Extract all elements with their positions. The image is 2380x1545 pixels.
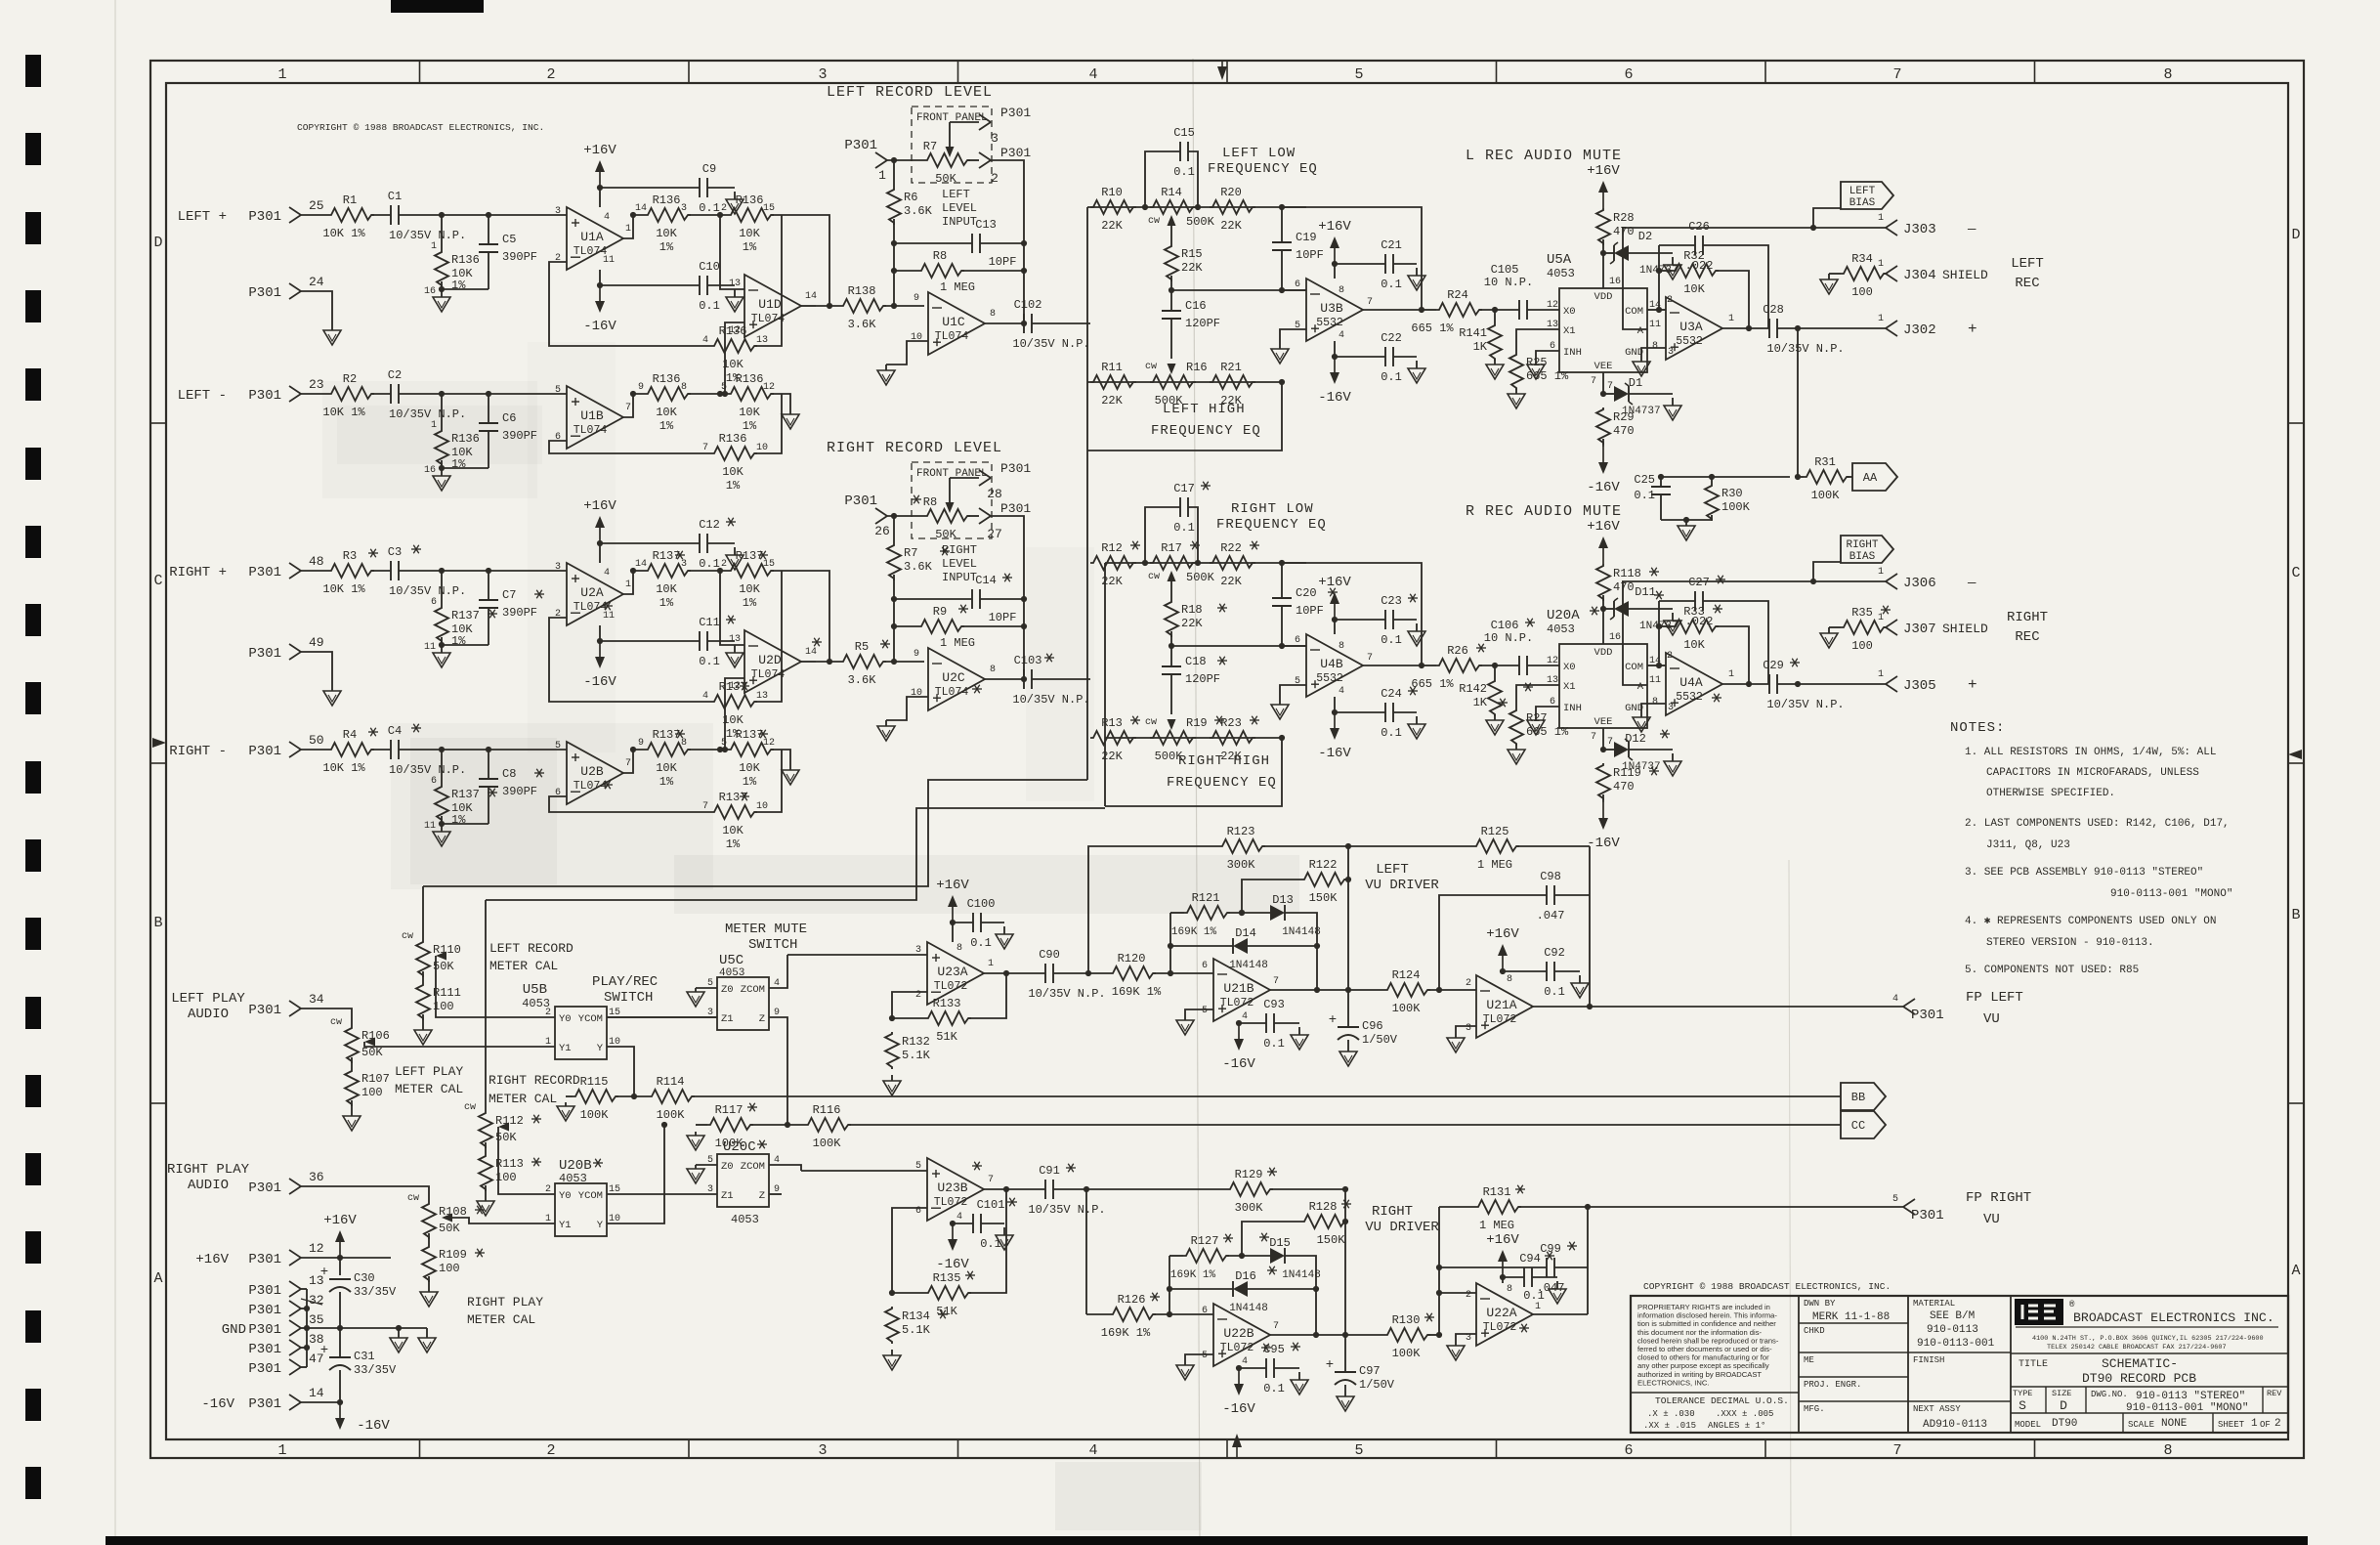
svg-text:R26: R26 — [1447, 644, 1468, 658]
svg-text:U2D: U2D — [758, 653, 782, 667]
svg-text:D2: D2 — [1638, 230, 1652, 243]
svg-text:VU DRIVER: VU DRIVER — [1365, 878, 1439, 893]
wire EQ mid node — [1170, 276, 1172, 290]
potentiometer R16 500K — [1150, 375, 1196, 389]
svg-text:4053: 4053 — [731, 1213, 759, 1226]
capacitor C96 1/50V — [1338, 1026, 1359, 1028]
wire A control to bias rail — [1623, 581, 1647, 685]
svg-text:R24: R24 — [1447, 288, 1468, 302]
wire Y0 to R112 wiper — [498, 1127, 555, 1194]
svg-text:0.1: 0.1 — [1634, 489, 1655, 502]
wire COM to output amp — [1647, 665, 1659, 666]
svg-text:COM: COM — [1625, 306, 1643, 318]
ground — [1556, 1281, 1558, 1289]
wire VEE down — [1602, 372, 1604, 394]
op-amp U2C — [928, 648, 985, 710]
svg-text:14: 14 — [635, 203, 647, 214]
svg-text:C1: C1 — [388, 190, 402, 203]
svg-text:12: 12 — [309, 1241, 324, 1256]
svg-text:R35: R35 — [1851, 606, 1873, 620]
svg-text:1: 1 — [2251, 1418, 2258, 1430]
svg-text:R121: R121 — [1192, 891, 1220, 905]
svg-text:Z1: Z1 — [721, 1013, 734, 1025]
svg-text:SHIELD: SHIELD — [1942, 268, 1988, 282]
svg-text:7: 7 — [1367, 297, 1373, 308]
wire output — [1722, 683, 1769, 685]
resistor R133 51K — [892, 1017, 925, 1019]
svg-text:+16V: +16V — [195, 1252, 229, 1267]
svg-text:10PF: 10PF — [989, 611, 1017, 624]
svg-text:A: A — [1637, 681, 1644, 693]
connector P301 pin 36 — [289, 1179, 301, 1186]
svg-text:C20: C20 — [1296, 586, 1317, 600]
svg-text:D11: D11 — [1635, 585, 1656, 599]
ground — [1279, 701, 1281, 705]
wire — [1777, 683, 1886, 685]
wire — [1479, 309, 1519, 311]
ground — [1672, 613, 1674, 621]
power +16V mute — [1602, 546, 1604, 564]
svg-text:AD910-0113: AD910-0113 — [1923, 1419, 1987, 1431]
svg-text:R33: R33 — [1683, 605, 1705, 619]
svg-text:22K: 22K — [1101, 750, 1123, 763]
svg-text:1K: 1K — [1473, 696, 1488, 709]
svg-text:4: 4 — [604, 568, 610, 579]
svg-text:14: 14 — [635, 559, 647, 570]
wire — [371, 393, 391, 395]
svg-text:TL072: TL072 — [934, 980, 968, 993]
power -16V — [1334, 341, 1336, 357]
svg-text:1N4148: 1N4148 — [1282, 926, 1321, 938]
svg-text:8: 8 — [1507, 974, 1512, 985]
svg-text:+16V: +16V — [1486, 1232, 1519, 1248]
svg-text:14: 14 — [805, 647, 817, 658]
svg-text:3. SEE PCB ASSEMBLY 910-0113: 3. SEE PCB ASSEMBLY 910-0113 "STEREO" — [1965, 867, 2203, 879]
svg-text:7: 7 — [702, 801, 708, 812]
connector P301 FP RIGHT VU — [1903, 1199, 1915, 1207]
svg-text:7: 7 — [1273, 976, 1279, 987]
ground — [441, 289, 443, 297]
wire to comparator — [1153, 972, 1213, 974]
op-amp U23B — [927, 1158, 984, 1221]
resistor R134 5.1K — [885, 1307, 899, 1344]
resistor R35 100 — [1828, 627, 1830, 633]
svg-text:C105: C105 — [1491, 263, 1519, 277]
svg-text:+16V: +16V — [1318, 575, 1351, 590]
svg-text:1%: 1% — [659, 419, 674, 433]
svg-text:RIGHT -: RIGHT - — [169, 744, 227, 759]
svg-text:9: 9 — [914, 293, 919, 304]
title block frame — [1631, 1296, 2288, 1433]
svg-text:300K: 300K — [1227, 858, 1256, 872]
svg-text:+: + — [1329, 1012, 1337, 1028]
svg-text:U2A: U2A — [580, 585, 604, 600]
zone tick marks top and bottom — [419, 61, 421, 83]
svg-text:P301: P301 — [1911, 1008, 1944, 1023]
svg-text:C18: C18 — [1185, 655, 1207, 668]
op-amp U1A — [567, 207, 623, 270]
wire non-inverting to ground — [1456, 1334, 1476, 1342]
wire — [1602, 239, 1604, 288]
resistor R118 470 — [1596, 564, 1610, 601]
svg-text:10/35V N.P.: 10/35V N.P. — [1028, 987, 1105, 1001]
svg-text:R142: R142 — [1459, 682, 1487, 696]
svg-text:22K: 22K — [1181, 617, 1203, 630]
resistor R124 100K — [1348, 989, 1384, 991]
svg-text:MATERIAL: MATERIAL — [1913, 1299, 1955, 1309]
svg-text:R18: R18 — [1181, 603, 1203, 617]
resistor R3 — [328, 564, 374, 578]
wire AA rail — [1797, 328, 1799, 477]
wire input column right VU — [1085, 1189, 1087, 1314]
svg-text:R28: R28 — [1613, 211, 1635, 225]
svg-text:7: 7 — [702, 443, 708, 453]
svg-text:1: 1 — [1535, 1302, 1541, 1312]
svg-text:665 1%: 665 1% — [1411, 322, 1454, 335]
ground — [426, 1328, 428, 1338]
svg-text:R8: R8 — [923, 495, 937, 509]
svg-text:0.1: 0.1 — [1381, 633, 1402, 647]
svg-text:PROJ. ENGR.: PROJ. ENGR. — [1804, 1380, 1861, 1390]
svg-text:100K: 100K — [813, 1137, 842, 1150]
svg-text:X1: X1 — [1563, 681, 1576, 693]
svg-text:23: 23 — [309, 377, 324, 392]
svg-text:R135: R135 — [933, 1271, 961, 1285]
svg-text:VDD: VDD — [1594, 647, 1613, 659]
svg-text:9: 9 — [638, 382, 644, 393]
svg-text:VEE: VEE — [1594, 716, 1613, 728]
svg-text:51K: 51K — [936, 1305, 957, 1318]
power +16V — [599, 188, 601, 207]
ground — [1685, 520, 1687, 526]
capacitor C22 decoupling — [1335, 356, 1385, 358]
wire INH to ground — [1536, 707, 1559, 716]
svg-text:50K: 50K — [935, 172, 956, 186]
resistor R137 feedback — [549, 618, 711, 702]
svg-text:U21B: U21B — [1223, 981, 1254, 996]
power -16V — [599, 625, 601, 641]
wire non-inverting to ground — [1185, 1354, 1213, 1361]
resistor R13 22K — [1090, 731, 1136, 745]
wire left EQ column extension — [1086, 451, 1088, 780]
svg-text:4053: 4053 — [1547, 267, 1575, 280]
svg-text:7: 7 — [1591, 732, 1596, 743]
svg-text:R137: R137 — [451, 609, 480, 622]
svg-text:J307: J307 — [1903, 622, 1936, 637]
svg-text:1: 1 — [1878, 613, 1884, 623]
svg-text:7: 7 — [1273, 1321, 1279, 1332]
svg-text:7: 7 — [1607, 381, 1613, 392]
svg-text:Z1: Z1 — [721, 1190, 734, 1202]
wire — [688, 749, 728, 751]
capacitor C20 10PF — [1281, 563, 1283, 598]
svg-text:SWITCH: SWITCH — [748, 937, 797, 953]
svg-text:C8: C8 — [502, 767, 516, 781]
svg-text:TL074: TL074 — [935, 686, 969, 699]
power -16V mute — [1602, 794, 1604, 802]
svg-text:—: — — [1967, 222, 1976, 237]
svg-text:169K 1%: 169K 1% — [1112, 985, 1162, 999]
svg-text:4053: 4053 — [1547, 622, 1575, 636]
wire — [1053, 1188, 1227, 1190]
ground — [1494, 714, 1496, 720]
svg-text:TYPE: TYPE — [2013, 1389, 2032, 1398]
svg-text:L REC AUDIO MUTE: L REC AUDIO MUTE — [1466, 148, 1622, 164]
svg-text:28: 28 — [987, 487, 1002, 501]
svg-text:8: 8 — [1652, 697, 1658, 708]
svg-text:SCHEMATIC-: SCHEMATIC- — [2102, 1356, 2178, 1371]
connector P301 pin 48 — [289, 563, 301, 571]
ground — [789, 766, 791, 770]
resistor R128 150K — [1242, 1222, 1301, 1256]
svg-text:-16V: -16V — [1587, 836, 1620, 851]
svg-text:B: B — [153, 915, 162, 931]
svg-text:10: 10 — [911, 332, 922, 343]
svg-text:6: 6 — [1202, 961, 1208, 971]
ground — [1515, 744, 1517, 750]
svg-text:100K: 100K — [657, 1108, 686, 1122]
connector P301 pot wiper top — [979, 114, 991, 122]
op-amp U22A TL072 — [1476, 1283, 1533, 1346]
wire — [399, 393, 567, 395]
power -16V — [1238, 1021, 1240, 1023]
svg-text:R14: R14 — [1161, 186, 1182, 199]
op-amp U23A — [927, 942, 984, 1005]
svg-text:C96: C96 — [1362, 1019, 1383, 1033]
ground — [1416, 623, 1418, 631]
wire output — [1270, 989, 1348, 991]
power +16V — [1502, 971, 1504, 974]
wire input — [787, 954, 927, 956]
svg-text:VEE: VEE — [1594, 361, 1613, 372]
svg-text:R123: R123 — [1227, 825, 1255, 838]
svg-text:U3B: U3B — [1320, 301, 1343, 316]
svg-text:+16V: +16V — [583, 498, 616, 514]
capacitor C8 390PF — [488, 750, 489, 779]
capacitor C5 390PF — [488, 215, 489, 244]
wire R- rail end — [771, 750, 790, 766]
wire feedback return — [754, 215, 782, 346]
svg-text:R134: R134 — [902, 1309, 930, 1323]
capacitor C26 loop — [1659, 244, 1695, 246]
flag BB — [1841, 1083, 1886, 1110]
svg-text:300K: 300K — [1235, 1201, 1264, 1215]
svg-text:A: A — [2291, 1263, 2300, 1279]
connector P301 pot right — [979, 152, 991, 160]
svg-text:TITLE: TITLE — [2019, 1359, 2048, 1370]
svg-text:8: 8 — [956, 943, 962, 954]
svg-text:P301: P301 — [248, 1361, 281, 1377]
wire VEE down — [1602, 728, 1604, 750]
wire BB rail — [692, 1095, 1841, 1097]
svg-text:8: 8 — [1339, 641, 1344, 652]
resistor R136 feedback — [549, 262, 711, 346]
svg-text:24: 24 — [309, 275, 324, 289]
svg-text:0.1: 0.1 — [970, 936, 992, 950]
wire — [1602, 595, 1604, 644]
svg-text:R2: R2 — [343, 372, 357, 386]
capacitor C29 output — [1768, 674, 1770, 694]
connector P301 pot wiper top — [979, 470, 991, 478]
wire output — [622, 394, 645, 417]
op-amp U4B 5532 — [1306, 634, 1363, 697]
svg-text:cw: cw — [402, 931, 413, 942]
svg-text:RIGHT: RIGHT — [1372, 1204, 1413, 1220]
wire — [399, 749, 567, 751]
svg-text:1/50V: 1/50V — [1362, 1033, 1398, 1047]
svg-text:100K: 100K — [1392, 1002, 1422, 1015]
svg-text:TL074: TL074 — [574, 780, 608, 793]
resistor R114 100K — [649, 1090, 695, 1103]
wire non-inverting input to ground — [1280, 685, 1306, 701]
capacitor C10 decoupling — [600, 284, 700, 286]
svg-text:15: 15 — [763, 559, 775, 570]
svg-text:R15: R15 — [1181, 247, 1203, 261]
svg-text:11: 11 — [603, 255, 615, 266]
svg-text:P301: P301 — [1000, 461, 1031, 476]
resistor R137 a — [645, 743, 691, 756]
wire EQ feedback to output — [1282, 207, 1422, 310]
svg-text:5: 5 — [1354, 66, 1363, 83]
svg-text:+: + — [1968, 676, 1977, 694]
svg-text:P301: P301 — [844, 138, 877, 153]
svg-text:R120: R120 — [1118, 952, 1146, 966]
resistor R2 — [328, 387, 374, 401]
capacitor C15 loop — [1145, 151, 1180, 207]
capacitor C25 0.1 — [1660, 477, 1662, 487]
svg-text:Z: Z — [759, 1013, 765, 1025]
power +16V — [1334, 264, 1336, 279]
svg-text:1%: 1% — [659, 775, 674, 789]
svg-text:METER CAL: METER CAL — [489, 1092, 557, 1106]
wire feedback return — [754, 394, 782, 453]
svg-text:1: 1 — [1878, 259, 1884, 270]
connector P301 ('FP LEFT', 'VU') — [1903, 999, 1915, 1007]
svg-text:390PF: 390PF — [502, 785, 537, 798]
svg-text:0.1: 0.1 — [1544, 985, 1565, 999]
resistor R32 10K feedback — [1659, 270, 1673, 272]
svg-text:FREQUENCY EQ: FREQUENCY EQ — [1167, 775, 1277, 791]
svg-text:ZCOM: ZCOM — [741, 1161, 765, 1173]
svg-text:FREQUENCY EQ: FREQUENCY EQ — [1151, 423, 1261, 439]
svg-text:6: 6 — [431, 776, 437, 787]
svg-text:10 N.P.: 10 N.P. — [1484, 631, 1533, 645]
svg-text:.XX ± .015: .XX ± .015 — [1643, 1421, 1696, 1431]
ground — [1416, 716, 1418, 724]
flag AA — [1847, 476, 1852, 478]
svg-text:3.6K: 3.6K — [904, 204, 933, 218]
ground — [1672, 398, 1674, 406]
svg-text:C16: C16 — [1185, 299, 1207, 313]
ground — [422, 1026, 424, 1030]
wire 5532 output — [1363, 309, 1422, 311]
resistor R11 22K — [1090, 375, 1136, 389]
wire — [883, 305, 924, 307]
svg-text:6: 6 — [431, 597, 437, 608]
wire non-inverting to ground — [1185, 1009, 1213, 1016]
svg-text:cw: cw — [330, 1017, 342, 1028]
svg-text:36: 36 — [309, 1170, 324, 1184]
svg-text:10/35V N.P.: 10/35V N.P. — [1766, 342, 1844, 356]
svg-text:RIGHT PLAY: RIGHT PLAY — [467, 1295, 543, 1309]
potentiometer R19 500K — [1150, 731, 1196, 745]
svg-text:R116: R116 — [813, 1103, 841, 1117]
svg-text:D: D — [2291, 227, 2300, 243]
svg-text:COPYRIGHT © 1988 BROADCAST ELE: COPYRIGHT © 1988 BROADCAST ELECTRONICS, … — [297, 122, 544, 133]
svg-text:R1: R1 — [343, 193, 357, 207]
op-amp U21B TL072 — [1213, 959, 1270, 1021]
capacitor C101 decoupling — [953, 1223, 973, 1224]
wire EQ bottom wrap — [1087, 382, 1282, 451]
svg-text:8: 8 — [2163, 66, 2172, 83]
svg-text:100K: 100K — [580, 1108, 610, 1122]
svg-text:10: 10 — [756, 801, 768, 812]
resistor R7 vertical 3.6K — [887, 543, 901, 580]
svg-text:R125: R125 — [1481, 825, 1509, 838]
diode D14 1N4148 — [1170, 945, 1233, 947]
capacitor C92 decoupling — [1503, 970, 1547, 972]
svg-text:+: + — [1968, 321, 1977, 338]
svg-text:11: 11 — [1649, 675, 1661, 686]
resistor R136 b — [728, 208, 774, 222]
svg-text:R130: R130 — [1392, 1313, 1421, 1327]
svg-text:Y0: Y0 — [559, 1013, 572, 1025]
svg-text:R7: R7 — [923, 140, 937, 153]
wire non-inverting input to ground — [886, 341, 928, 365]
ground — [1455, 1342, 1457, 1346]
svg-text:16: 16 — [424, 465, 436, 476]
svg-text:4: 4 — [1088, 66, 1097, 83]
svg-text:D: D — [153, 235, 162, 251]
wire — [301, 570, 328, 572]
svg-text:J311, Q8, U23: J311, Q8, U23 — [1986, 839, 2070, 851]
title block material column — [2010, 1296, 2012, 1433]
svg-text:35: 35 — [309, 1312, 324, 1327]
resistor R9 1 MEG — [894, 625, 918, 627]
svg-text:VU DRIVER: VU DRIVER — [1365, 1220, 1439, 1235]
svg-text:10K: 10K — [656, 761, 677, 775]
svg-text:3.6K: 3.6K — [848, 673, 877, 687]
svg-text:TL074: TL074 — [935, 330, 969, 343]
svg-text:R9: R9 — [933, 605, 947, 619]
svg-text:LEFT: LEFT — [942, 188, 970, 201]
svg-text:LEVEL: LEVEL — [942, 557, 977, 571]
svg-text:150K: 150K — [1309, 891, 1339, 905]
svg-text:PLAY/REC: PLAY/REC — [592, 974, 658, 990]
flag CC — [1841, 1111, 1886, 1138]
svg-text:DWG.NO.: DWG.NO. — [2091, 1390, 2128, 1399]
svg-text:INPUT: INPUT — [942, 571, 977, 584]
svg-text:1%: 1% — [743, 240, 757, 254]
svg-text:P301: P301 — [248, 1322, 281, 1338]
svg-text:P301: P301 — [248, 1283, 281, 1299]
svg-text:3: 3 — [1668, 347, 1674, 358]
resistor R130 100K — [1384, 1328, 1430, 1342]
wire YCOM to U5C — [607, 1016, 717, 1018]
resistor R135 51K — [892, 1292, 925, 1294]
capacitor C97 1/50V — [1335, 1371, 1356, 1373]
svg-text:LEFT PLAY: LEFT PLAY — [395, 1064, 463, 1079]
wire — [1053, 972, 1110, 974]
wire inverting input — [720, 571, 744, 645]
svg-text:C5: C5 — [502, 233, 516, 246]
svg-text:BROADCAST ELECTRONICS INC.: BROADCAST ELECTRONICS INC. — [2073, 1310, 2274, 1325]
svg-text:10PF: 10PF — [989, 255, 1017, 269]
svg-text:BIAS: BIAS — [1849, 551, 1876, 563]
svg-text:CC: CC — [1851, 1119, 1865, 1133]
svg-text:LEFT -: LEFT - — [178, 388, 227, 404]
resistor R136 input divider — [441, 215, 443, 250]
